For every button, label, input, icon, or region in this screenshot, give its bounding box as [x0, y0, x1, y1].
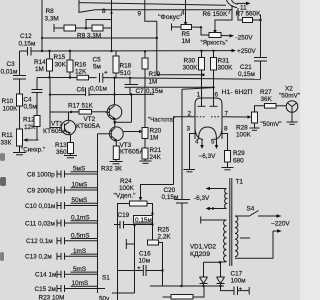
svg-text:1М: 1М — [182, 38, 191, 45]
svg-text:R16: R16 — [75, 62, 87, 69]
resistor R5 1M focus potentiometer — [172, 24, 201, 46]
ground below R28 — [250, 123, 260, 130]
svg-text:2,2K: 2,2K — [158, 234, 172, 241]
svg-text:1: 1 — [197, 92, 201, 99]
capacitor C8 1000p timing — [27, 166, 98, 179]
svg-text:-6,3V: -6,3V — [194, 195, 210, 202]
svg-text:КТ605А: КТ605А — [76, 123, 101, 130]
tube pin 7 grid wire — [222, 111, 251, 119]
svg-text:0,01м: 0,01м — [1, 69, 18, 76]
tube pin 2 grid wire — [174, 111, 196, 185]
resistor R19 1M — [142, 51, 161, 127]
svg-text:R19: R19 — [149, 71, 161, 78]
resistor R30 300K — [183, 51, 205, 75]
svg-text:C4: C4 — [24, 97, 33, 104]
svg-text:680: 680 — [233, 158, 244, 165]
svg-text:C19: C19 — [118, 212, 130, 219]
svg-text:C21: C21 — [240, 64, 252, 71]
svg-text:C5: C5 — [93, 57, 102, 64]
svg-text:VT1: VT1 — [51, 121, 63, 128]
resistor R18 510 — [113, 51, 132, 78]
svg-text:~220V: ~220V — [271, 221, 290, 228]
svg-text:100K: 100K — [119, 185, 135, 192]
svg-text:0,01м: 0,01м — [90, 86, 107, 93]
svg-text:8: 8 — [102, 8, 106, 15]
svg-text:0,15м: 0,15м — [238, 71, 255, 78]
svg-text:R12: R12 — [23, 117, 35, 124]
transformer T1 mains winding — [235, 216, 273, 258]
svg-text:R13: R13 — [55, 142, 67, 149]
pin 8 — [102, 0, 113, 51]
pin 7 CRT wire to brightness pot — [213, 5, 232, 34]
resistor R28 100K potentiometer — [236, 112, 282, 139]
svg-text:C13 0,2м: C13 0,2м — [25, 254, 52, 261]
ground below R11 — [13, 146, 26, 155]
svg-text:R14: R14 — [34, 59, 46, 66]
svg-text:R24: R24 — [120, 178, 132, 185]
transistor VT2 KT605A — [76, 78, 122, 130]
capacitor C14 1м timing — [35, 266, 98, 279]
resistor R16 12K — [75, 62, 89, 80]
svg-text:6: 6 — [215, 92, 219, 99]
svg-text:C14 1м: C14 1м — [35, 272, 56, 279]
svg-text:R25: R25 — [158, 227, 170, 234]
svg-text:300K: 300K — [183, 65, 199, 72]
svg-text:C8 1000p: C8 1000p — [27, 171, 55, 178]
anode wire to tube pin 6 — [134, 86, 215, 88]
switch S4 — [240, 206, 290, 239]
svg-text:+: + — [104, 70, 108, 77]
svg-text:"50mV": "50mV" — [279, 93, 300, 100]
svg-text:100м: 100м — [231, 278, 246, 285]
svg-text:C12: C12 — [20, 33, 32, 40]
switch S1 bus — [90, 134, 110, 293]
svg-text:50v: 50v — [99, 296, 110, 300]
svg-text:S4: S4 — [247, 206, 255, 213]
svg-text:T1: T1 — [236, 179, 244, 186]
svg-text:R28: R28 — [236, 125, 248, 132]
supply rail 2 — [37, 76, 261, 79]
capacitor C7 0.15u — [125, 78, 163, 122]
diode VD1 KD209 — [190, 244, 216, 287]
resistor R20 1M frequency potentiometer — [123, 128, 161, 142]
svg-text:4: 4 — [181, 10, 185, 17]
svg-text:5: 5 — [211, 139, 215, 146]
svg-text:C12 0,1м: C12 0,1м — [26, 238, 53, 245]
svg-text:R31: R31 — [218, 58, 230, 65]
resistor R12 12K — [23, 116, 40, 141]
ground below R21 — [140, 159, 152, 163]
connector X2 50mV — [279, 86, 300, 125]
capacitor C4 0.5u — [24, 78, 43, 116]
resistor R24 100K Vdel potentiometer — [114, 178, 174, 300]
resistor R31 300K — [211, 51, 234, 88]
svg-text:"Vдел.": "Vдел." — [114, 193, 136, 200]
svg-text:C10 0,01м: C10 0,01м — [25, 203, 55, 210]
svg-text:30K: 30K — [55, 62, 67, 69]
tube cathode arcs — [195, 127, 222, 140]
pin 11 arrow — [237, 2, 251, 12]
svg-text:1М: 1М — [149, 79, 158, 86]
svg-text:5mS: 5mS — [73, 266, 86, 273]
svg-text:10мS: 10мS — [72, 182, 88, 189]
capacitor C13 0,2м timing — [25, 248, 98, 261]
svg-text:Н1- 6Н2П: Н1- 6Н2П — [222, 89, 253, 96]
svg-text:~6,3V: ~6,3V — [199, 153, 217, 160]
svg-text:C11 0,02м: C11 0,02м — [25, 220, 55, 227]
tube pin 1 anode — [197, 75, 206, 107]
resistor R9 3.3M — [77, 20, 112, 40]
resistor R14 1M — [34, 51, 53, 78]
svg-text:1М: 1М — [35, 66, 44, 73]
svg-text:X2: X2 — [285, 86, 293, 93]
tube pin 3 cathode to ground — [184, 126, 197, 172]
svg-text:C6: C6 — [77, 87, 86, 94]
resistor R21 24K — [142, 139, 162, 162]
capacitor C19 0.15u — [114, 212, 154, 229]
+250V rail — [41, 48, 257, 55]
ground below R32 — [110, 160, 123, 164]
capacitor C6 0.01u — [50, 86, 154, 97]
svg-text:R20: R20 — [150, 128, 162, 135]
svg-text:24K: 24K — [150, 154, 162, 161]
svg-text:C17: C17 — [231, 271, 243, 278]
svg-text:12K: 12K — [75, 69, 87, 76]
svg-text:C16: C16 — [139, 251, 151, 258]
resistor R32 3K — [101, 141, 122, 173]
svg-text:"Частота": "Частота" — [148, 117, 175, 124]
node: focus pin 4 — [158, 0, 187, 26]
svg-text:-250V: -250V — [236, 35, 254, 42]
svg-text:36K: 36K — [261, 96, 273, 103]
svg-text:R32 3К: R32 3К — [101, 166, 122, 173]
svg-text:R8: R8 — [46, 8, 55, 15]
ground below R29 — [222, 162, 234, 170]
resistor R11 33K sync potentiometer — [1, 129, 46, 154]
svg-text:33К: 33К — [1, 140, 12, 147]
tube pin 6 anode — [210, 87, 219, 106]
svg-text:VD1,VD2: VD1,VD2 — [190, 244, 216, 251]
ground below R13 — [64, 154, 77, 158]
svg-text:R27: R27 — [260, 89, 272, 96]
svg-text:R29: R29 — [233, 150, 245, 157]
transistor VT3 KT605A — [108, 119, 145, 156]
svg-text:C9 2000p: C9 2000p — [27, 187, 55, 194]
svg-text:R10: R10 — [2, 98, 14, 105]
svg-text:8: 8 — [224, 126, 228, 133]
capacitor C11 0,02м timing — [25, 215, 98, 228]
svg-text:+: + — [239, 286, 243, 293]
capacitor C12 0.15u — [19, 33, 43, 56]
resistor R25 2.2K — [148, 227, 172, 272]
svg-text:10м: 10м — [139, 258, 151, 265]
transformer T1 secondary winding — [201, 217, 227, 264]
svg-text:"50mV": "50mV" — [261, 121, 282, 128]
svg-text:0,15м: 0,15м — [19, 41, 36, 48]
svg-text:R17 51K: R17 51K — [68, 103, 94, 110]
resistor R13 360 — [55, 134, 74, 156]
resistor R8 3.3M — [45, 8, 93, 32]
svg-text:0,1mS: 0,1mS — [71, 215, 89, 222]
svg-text:5мS: 5мS — [73, 166, 85, 173]
capacitor C16 10u electrolytic — [118, 251, 164, 277]
svg-text:R11: R11 — [2, 132, 14, 139]
svg-text:10mS: 10mS — [72, 280, 89, 287]
svg-text:9: 9 — [138, 11, 142, 18]
svg-text:R23 10М: R23 10М — [39, 295, 65, 300]
svg-text:5м: 5м — [93, 64, 101, 71]
transistor VT1 KT605A — [43, 111, 79, 135]
svg-text:КТ605А: КТ605А — [120, 149, 145, 156]
svg-text:C20: C20 — [164, 187, 176, 194]
svg-text:0,15м: 0,15м — [135, 217, 152, 224]
capacitor C15 2м timing — [35, 280, 98, 293]
CRT envelope bottom edge — [79, 0, 238, 12]
resistor R7 560K — [236, 8, 262, 58]
capacitor C10 0,01м timing — [25, 197, 98, 210]
diode VD2 KD209 — [217, 262, 225, 286]
capacitor C9 2000p timing — [27, 182, 98, 195]
resistor R27 36K — [255, 89, 287, 112]
svg-text:+250V: +250V — [237, 48, 256, 55]
capacitor C20 0.15u — [162, 88, 214, 286]
capacitor C3 0.01u — [1, 51, 27, 94]
svg-text:0,5м: 0,5м — [24, 104, 37, 111]
svg-text:360: 360 — [56, 149, 67, 156]
svg-text:3,3М: 3,3М — [45, 16, 59, 23]
svg-text:R21: R21 — [150, 147, 162, 154]
svg-text:1mS: 1mS — [73, 248, 86, 255]
resistor R10 100K — [2, 94, 23, 129]
bottom wire — [150, 271, 224, 287]
svg-text:300K: 300K — [218, 65, 234, 72]
svg-text:R7 560K: R7 560K — [236, 11, 262, 18]
tube pins 4 5 heater arrows — [195, 139, 218, 161]
capacitor C5 5u electrolytic — [93, 57, 109, 83]
svg-text:S1: S1 — [102, 275, 110, 282]
svg-text:50мS: 50мS — [72, 197, 88, 204]
resistor R23 10M label — [39, 295, 111, 300]
svg-text:"Фокус": "Фокус" — [158, 14, 182, 21]
svg-text:R18: R18 — [120, 63, 132, 70]
svg-text:КД209: КД209 — [190, 251, 210, 258]
resistor R29 680 — [225, 150, 246, 165]
wire from R5 area to left column — [41, 0, 158, 51]
transformer T1 core — [230, 178, 244, 266]
svg-text:510: 510 — [120, 70, 131, 77]
capacitor C21 0.15u — [238, 58, 267, 80]
svg-text:C15 2м: C15 2м — [35, 286, 56, 293]
transformer T1 heater winding — [194, 187, 227, 211]
tube pin 8 cathode to R29 — [221, 126, 228, 151]
svg-text:C3: C3 — [7, 61, 16, 68]
wire from C19 node down across C16 wire — [112, 224, 136, 293]
svg-text:"Яркость": "Яркость" — [201, 40, 228, 47]
svg-text:R15: R15 — [54, 54, 66, 61]
svg-text:100K: 100K — [3, 106, 19, 113]
tube H1 envelope — [195, 98, 222, 139]
svg-text:100K: 100K — [236, 132, 252, 139]
svg-text:VT2: VT2 — [84, 116, 96, 123]
svg-text:0,5mS: 0,5mS — [71, 232, 89, 239]
resistor R15 30K — [54, 51, 74, 78]
svg-text:КТ605А: КТ605А — [43, 128, 68, 135]
svg-text:1М: 1М — [150, 135, 159, 142]
pin 9 — [138, 0, 205, 76]
svg-text:3: 3 — [187, 126, 191, 133]
svg-text:R6 150K: R6 150K — [203, 11, 229, 18]
tube H1 6N2P label — [222, 89, 253, 96]
capacitor C12b 0,1м timing — [26, 232, 98, 245]
tube grids dashed — [197, 116, 221, 118]
svg-text:R5: R5 — [182, 31, 191, 38]
capacitor C17 100u electrolytic — [221, 271, 250, 296]
svg-text:R30: R30 — [184, 58, 196, 65]
svg-text:4: 4 — [195, 139, 199, 146]
resistor R6 150K brightness potentiometer — [200, 11, 253, 47]
resistor R26 — [163, 286, 205, 299]
svg-text:7: 7 — [228, 9, 232, 16]
switch contact stub — [126, 239, 134, 249]
resistor R17 51K — [68, 103, 107, 115]
node: Chastota label — [148, 117, 175, 124]
coupling wire / node — [49, 78, 62, 128]
